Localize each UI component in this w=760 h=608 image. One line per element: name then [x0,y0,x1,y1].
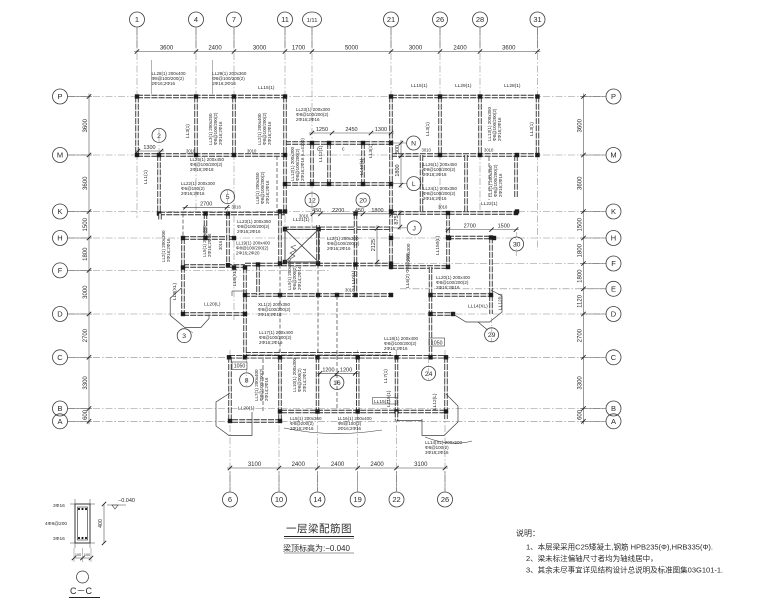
svg-text:21: 21 [387,15,395,24]
dim chain 450/2200/450/1800 [310,213,395,215]
wall x280 C-A [278,357,281,421]
svg-text:875: 875 [394,215,400,224]
wall x363 N-L [361,143,364,184]
wall x258 F-E [256,265,259,296]
axis bubble 4 (top) [189,12,204,27]
grid axis D [68,313,606,315]
svg-text:LL150(L): LL150(L) [435,235,441,255]
in-plan axis bubble 30 [510,237,524,251]
svg-text:2400: 2400 [331,462,345,468]
beam label LL10(1) block rotated (room 10-14) [292,357,307,392]
wall x318 K-F [316,225,319,265]
wall x183 H-D [181,238,184,314]
wall grid1 P-M [135,97,138,156]
svg-text:11: 11 [281,15,289,24]
svg-text:A: A [611,417,616,426]
section detail extension lines [70,503,95,505]
axis bubble 14 (bottom) [310,492,325,507]
svg-text:1500: 1500 [498,224,510,230]
svg-text:LL22(1): LL22(1) [481,201,498,207]
axis bubble K (right) [606,204,621,219]
svg-text:2Φ14;2Φ14: 2Φ14;2Φ14 [302,368,307,392]
svg-text:1800: 1800 [578,269,584,283]
dim 800/1800 vertical [400,140,402,188]
wall x245 F-C [243,268,246,358]
wall x280 K-F [278,213,281,265]
svg-text:3000: 3000 [253,46,267,52]
top dimension chain [134,51,541,53]
grid axis A [68,420,606,422]
svg-text:1120: 1120 [578,294,584,308]
svg-text:3016: 3016 [232,205,242,210]
grid axis B [68,408,606,410]
svg-text:3016: 3016 [218,240,223,250]
wall grid21 spine [389,97,392,266]
svg-text:一层梁配筋图: 一层梁配筋图 [286,522,352,535]
svg-text:F: F [58,266,63,275]
grid axis 26 bottom [444,350,446,491]
svg-text:450: 450 [355,208,364,214]
axis bubble 26 (top) [433,12,448,27]
svg-text:22: 22 [392,495,400,504]
svg-text:1200: 1200 [340,367,352,373]
grid axis 22 [396,350,398,491]
grid stub axis 24 [428,358,430,381]
leader arc bottom-right label [425,437,472,443]
svg-text:2Φ16;2Φ16: 2Φ16;2Φ16 [259,340,283,345]
axis bubble 31 (top) [530,12,545,27]
left dimension chain [88,94,90,425]
P beam left block [137,95,285,98]
svg-text:2Φ16;2Φ16: 2Φ16;2Φ16 [212,81,236,86]
dim 875 vertical [399,210,401,230]
svg-text:LL15(1): LL15(1) [411,83,428,89]
F beam mid (elevator bottom) [245,263,391,266]
wall 1/11 N-L [310,143,313,184]
secondary beam x318 (corridor) [317,265,319,354]
grid axis 26 top [439,28,441,213]
wall x356 stair [354,214,357,296]
svg-text:3600: 3600 [160,46,174,52]
svg-text:3300: 3300 [83,376,89,390]
F beam right [391,265,448,268]
svg-text:1800: 1800 [578,243,584,257]
svg-text:2Φ16;2Φ16: 2Φ16;2Φ16 [166,238,171,262]
grid axis 14 [317,350,319,491]
svg-text:1800: 1800 [395,164,401,176]
svg-text:LL12(1): LL12(1) [359,158,365,175]
svg-text:M: M [610,151,616,160]
svg-text:2Φ16;2Φ16: 2Φ16;2Φ16 [265,180,270,204]
svg-text:31: 31 [533,15,541,24]
svg-text:LL15(1): LL15(1) [258,85,275,91]
beam label LL2(1) block rotated (left edge) [161,230,171,262]
wall x230 C-A [228,357,231,421]
svg-text:K: K [57,207,62,216]
axis bubble 1/11 (top) [303,12,322,27]
svg-text:2Φ16;2Φ16: 2Φ16;2Φ16 [338,426,362,431]
svg-text:1200: 1200 [322,367,334,373]
in-plan axis bubble 24 [422,366,436,380]
svg-text:LL20(1): LL20(1) [238,406,255,412]
svg-text:3016: 3016 [345,288,355,293]
svg-text:LL15(1): LL15(1) [374,399,391,405]
svg-text:4Φ8@200: 4Φ8@200 [45,521,67,527]
grid axis 31 [537,28,539,250]
svg-text:19: 19 [354,495,362,504]
axis bubble B (right) [606,401,621,416]
svg-text:说明：: 说明： [516,528,540,538]
M beam left block [137,153,285,156]
wall grid7 P-M [232,97,235,156]
svg-text:LL3(1): LL3(1) [529,122,535,136]
bottom dimension chain [227,467,448,469]
wall x430 E-C [429,267,432,357]
svg-text:2Φ16;2Φ16: 2Φ16;2Φ16 [237,229,261,234]
grid axis 28 [479,28,481,213]
section detail dim 400 [103,504,105,543]
wall grid26 P-M [438,97,441,156]
svg-text:1250: 1250 [316,127,328,133]
F beam left [183,264,245,267]
svg-text:3600: 3600 [578,118,584,132]
axis bubble E (right) [606,281,621,296]
svg-text:2Φ16;2Φ16: 2Φ16;2Φ16 [258,312,282,317]
svg-text:4: 4 [194,15,198,24]
svg-text:H: H [611,234,616,243]
svg-text:26: 26 [441,495,449,504]
svg-text:2Φ16;2Φ16: 2Φ16;2Φ16 [497,117,502,141]
svg-text:P: P [57,92,62,101]
svg-text:3600: 3600 [502,46,516,52]
leader line bubble J [391,227,407,229]
svg-text:2700: 2700 [464,224,476,230]
grid axis 7 [233,28,235,320]
svg-text:2Φ16;2Φ16: 2Φ16;2Φ16 [296,117,320,122]
thin wall x183 K-H [182,214,184,239]
bay window at axis 3 (left, above D) [170,288,209,327]
wall x446 C-B [444,357,447,419]
axis bubble 6 (bottom) [223,492,238,507]
svg-text:LL6(XL): LL6(XL) [232,269,238,286]
axis bubble 22 (bottom) [389,492,404,507]
svg-text:1500: 1500 [578,217,584,231]
svg-text:14: 14 [313,495,321,504]
beam label LL8(1) block rotated (room M-K) [255,171,270,204]
column blocks (solid concrete columns) [135,94,139,98]
extension line above P at x151.5 [151,60,153,94]
svg-text:12: 12 [308,197,316,204]
svg-text:5000: 5000 [345,46,359,52]
svg-text:3100: 3100 [248,462,262,468]
axis bubble A (right) [606,414,621,429]
svg-text:LL12(L): LL12(L) [498,293,504,310]
boxed label 1050 (left) [232,362,247,369]
beam label LL7(1) block rotated (room 8) [254,368,269,401]
svg-text:1、本层梁采用C25矮凝土,钢筋 HPB235(Φ),HRB: 1、本层梁采用C25矮凝土,钢筋 HPB235(Φ),HRB335(Φ). [526,542,713,552]
svg-text:450: 450 [312,208,321,214]
svg-text:LL12(L): LL12(L) [432,393,438,410]
svg-text:2Φ14;2Φ16: 2Φ14;2Φ16 [264,377,269,401]
svg-text:2125: 2125 [371,239,377,251]
in-plan axis bubble 16 [330,376,344,390]
bay window at axis 29 (right, below E) [453,290,502,330]
svg-text:3Φ16: 3Φ16 [53,503,65,509]
grid stub axis 8 [246,358,248,387]
boxed label LL15(1) mid-bottom room [373,398,398,405]
svg-text:100: 100 [84,553,90,557]
grid axis H [68,237,606,239]
axis bubble 10 (bottom) [272,492,287,507]
svg-text:2Φ14;2Φ14: 2Φ14;2Φ14 [297,266,302,290]
svg-text:LL29(1): LL29(1) [455,83,472,89]
svg-text:1800: 1800 [371,208,383,214]
svg-text:B: B [57,404,62,413]
dim 1200/1200 [317,372,358,374]
svg-text:LL3(1): LL3(1) [185,124,191,138]
svg-text:100: 100 [75,553,81,557]
beam label LL9(1) block rotated (corridor) [287,258,302,290]
svg-text:400: 400 [98,519,104,528]
section detail rebar dots [78,508,80,510]
svg-text:2Φ16;2Φ16 (L=4100): 2Φ16;2Φ16 (L=4100) [300,138,305,181]
svg-text:2700: 2700 [200,201,212,207]
svg-text:3000: 3000 [83,285,89,299]
svg-text:600: 600 [578,409,584,420]
svg-text:3、其余未尽事宜详见结构设计总说明及标准图集03G101-1: 3、其余未尽事宜详见结构设计总说明及标准图集03G101-1. [526,565,723,575]
secondary beam x337 (C-B rooms) [336,296,338,411]
svg-text:3Φ16: 3Φ16 [53,536,65,542]
svg-text:LL10(1): LL10(1) [351,270,357,287]
beam label LL3(1) block rotated (room 4-7) [208,112,223,145]
beam label LL13(1) block rotated [487,106,502,141]
svg-text:LL1(1): LL1(1) [143,170,149,184]
section detail C-C column outline [75,504,90,543]
svg-text:2400: 2400 [208,46,222,52]
axis bubble D (right) [606,307,621,322]
svg-text:3600: 3600 [83,118,89,132]
grid axis 1 [136,28,138,218]
svg-text:C－C: C－C [70,586,92,596]
C upper beam [245,352,391,355]
axis bubble C (left) [53,350,68,365]
in-plan axis bubble N [407,136,421,150]
svg-text:LL14(XL): LL14(XL) [468,304,488,310]
grid axis F left [68,269,330,271]
axis bubble 7 (top) [227,12,242,27]
svg-text:3: 3 [182,333,186,340]
grid axis 19 [357,350,359,491]
svg-text:−0.040: −0.040 [118,498,135,504]
in-plan axis bubble 3 [177,329,191,343]
svg-text:1800: 1800 [83,247,89,261]
svg-text:P: P [611,92,616,101]
axis bubble P (right) [606,89,621,104]
svg-text:M: M [57,151,63,160]
A beam left unit [232,419,281,422]
section detail bottom dim 100 100 [74,557,91,559]
K beam right [391,211,516,214]
wall x466 M-K [464,155,467,212]
D beam right [430,312,453,315]
in-plan axis bubble J [407,221,421,235]
wall x491 H-D [489,238,492,315]
svg-text:26: 26 [436,15,444,24]
wall x317 C-B [316,357,319,412]
in-plan axis bubble 29 [485,328,499,342]
secondary beam x277 (LL8) [276,156,278,213]
svg-text:2200: 2200 [332,208,344,214]
svg-text:3000: 3000 [409,46,423,52]
svg-text:E: E [611,285,616,294]
beam label LL1(1) block rotated (room M-K right) [488,164,503,197]
svg-text:3010: 3010 [247,149,257,154]
svg-text:LL7(1): LL7(1) [383,369,389,383]
svg-text:2Φ18;3Φ18: 2Φ18;3Φ18 [423,172,447,177]
axis bubble 1 (top) [130,12,145,27]
leader arc bottom labels [284,428,382,434]
E beam right [430,293,491,296]
svg-text:A: A [57,417,62,426]
axis bubble 11 (top) [278,12,293,27]
svg-text:2Φ16;2Φ16: 2Φ16;2Φ16 [207,233,212,257]
elevator shaft (X-braced) [285,229,319,262]
beam label LL5(1) block rotated [202,225,212,257]
axis bubble 21 (top) [384,12,399,27]
svg-text:600: 600 [83,409,89,420]
leader line bubble L [391,183,407,185]
bay window bottom-right unit [422,394,458,436]
axis bubble K (left) [53,204,68,219]
svg-text:3600: 3600 [83,176,89,190]
dim 2700/1500 right [445,229,519,231]
svg-text:20: 20 [359,197,367,204]
svg-text:1500: 1500 [83,217,89,231]
H beam left [183,236,234,239]
svg-text:LL3(1): LL3(1) [368,144,374,158]
wall x448 K-F [446,213,449,267]
grid axis 4 [195,28,197,215]
grid axis C [68,356,606,358]
svg-text:1700: 1700 [292,46,306,52]
dim 2700 left [183,206,231,208]
wall grid4 P-M [194,97,197,156]
boxed label 1050 (right) [429,338,445,346]
axis bubble 19 (bottom) [350,492,365,507]
svg-text:1050: 1050 [431,340,443,346]
partition lines kitchen corner [232,290,246,292]
dim 1300 below bubble 2 [135,150,164,152]
svg-text:1300: 1300 [375,127,387,133]
svg-text:LL20(L): LL20(L) [204,302,221,308]
grid axis E [400,288,606,290]
svg-text:2Φ16;2Φ16: 2Φ16;2Φ16 [423,196,447,201]
svg-text:1: 1 [135,15,139,24]
grid axis K [68,211,606,213]
svg-text:2Φ18;3Φ18: 2Φ18;3Φ18 [190,167,214,172]
svg-text:LL12(1): LL12(1) [318,145,324,162]
svg-text:C: C [611,353,617,362]
svg-text:2400: 2400 [292,462,306,468]
svg-text:F: F [611,259,616,268]
svg-text:30: 30 [513,241,521,248]
svg-text:3600: 3600 [578,176,584,190]
bay window bottom-left unit [216,393,252,436]
section detail circle mark [77,571,89,583]
grid stub axis 2 [158,128,160,155]
svg-text:3016: 3016 [438,205,448,210]
grid axis 11 [284,28,286,230]
svg-text:2Φ16;2Φ16: 2Φ16;2Φ16 [384,346,408,351]
svg-text:2Φ16;2Φ16: 2Φ16;2Φ16 [290,426,314,431]
svg-text:2400: 2400 [453,46,467,52]
in-plan axis bubble 20 [356,193,370,207]
wall x329 N-L [327,143,330,184]
svg-text:3010: 3010 [186,149,196,154]
grid axis M [68,154,606,156]
wall grid28 P-M [478,97,481,156]
svg-text:3016: 3016 [299,214,309,219]
secondary beam x280 (corridor) [279,265,281,354]
grid axis 6 [229,350,231,491]
svg-text:LL28(1): LL28(1) [504,83,521,89]
P beam right block [391,95,538,98]
leader lines bubble 3 [177,330,181,334]
svg-text:2700: 2700 [83,328,89,342]
wall x228 K-F [226,213,229,265]
svg-text:2Φ16;2Φ16: 2Φ16;2Φ16 [267,121,272,145]
D beam left [183,312,245,315]
grid stub axis 5 [227,189,229,214]
in-plan axis bubble L [407,177,421,191]
M beam right block [391,153,538,156]
in-plan axis bubble 12 [305,193,319,207]
axis bubble 26 (bottom) [438,492,453,507]
svg-text:2400: 2400 [370,462,384,468]
in-plan axis bubble 8 [240,373,254,387]
svg-text:2Φ16;2Φ16: 2Φ16;2Φ16 [152,81,176,86]
svg-text:2450: 2450 [345,127,357,133]
beam label LL12(1) block rotated [290,138,305,181]
in-plan axis bubble 2 [152,128,166,142]
wall grid31 P-M [536,97,539,156]
svg-text:2700: 2700 [578,328,584,342]
grid axis 1/11 [311,28,313,230]
dim chain 1250/2450/1300 [309,132,394,134]
grid axis P [68,96,606,98]
svg-text:2Φ16;2Φ16: 2Φ16;2Φ16 [327,246,351,251]
wall stub x160 below K [158,214,161,220]
svg-text:1300: 1300 [143,145,155,151]
dim 2125 vertical [376,225,378,265]
grid axis F right [380,263,606,265]
in-plan axis bubble 5 [221,190,235,204]
svg-text:800: 800 [395,145,401,154]
svg-text:D: D [611,310,617,319]
svg-text:C: C [57,353,63,362]
svg-text:6: 6 [228,495,232,504]
L beam [285,182,391,185]
secondary beam x263 (bottom room 8) [262,359,264,411]
svg-text:L: L [412,181,416,188]
beam label LL2(1) block rotated (room 7-11) [257,112,272,145]
axis bubble B (left) [53,401,68,416]
svg-text:3Φ18;2Φ16: 3Φ18;2Φ16 [425,450,449,455]
axis bubble F (left) [53,263,68,278]
secondary beam x489 (room M-K right) [488,157,490,200]
svg-text:K: K [611,207,616,216]
svg-text:2Φ16;2Φ16: 2Φ16;2Φ16 [436,285,460,290]
